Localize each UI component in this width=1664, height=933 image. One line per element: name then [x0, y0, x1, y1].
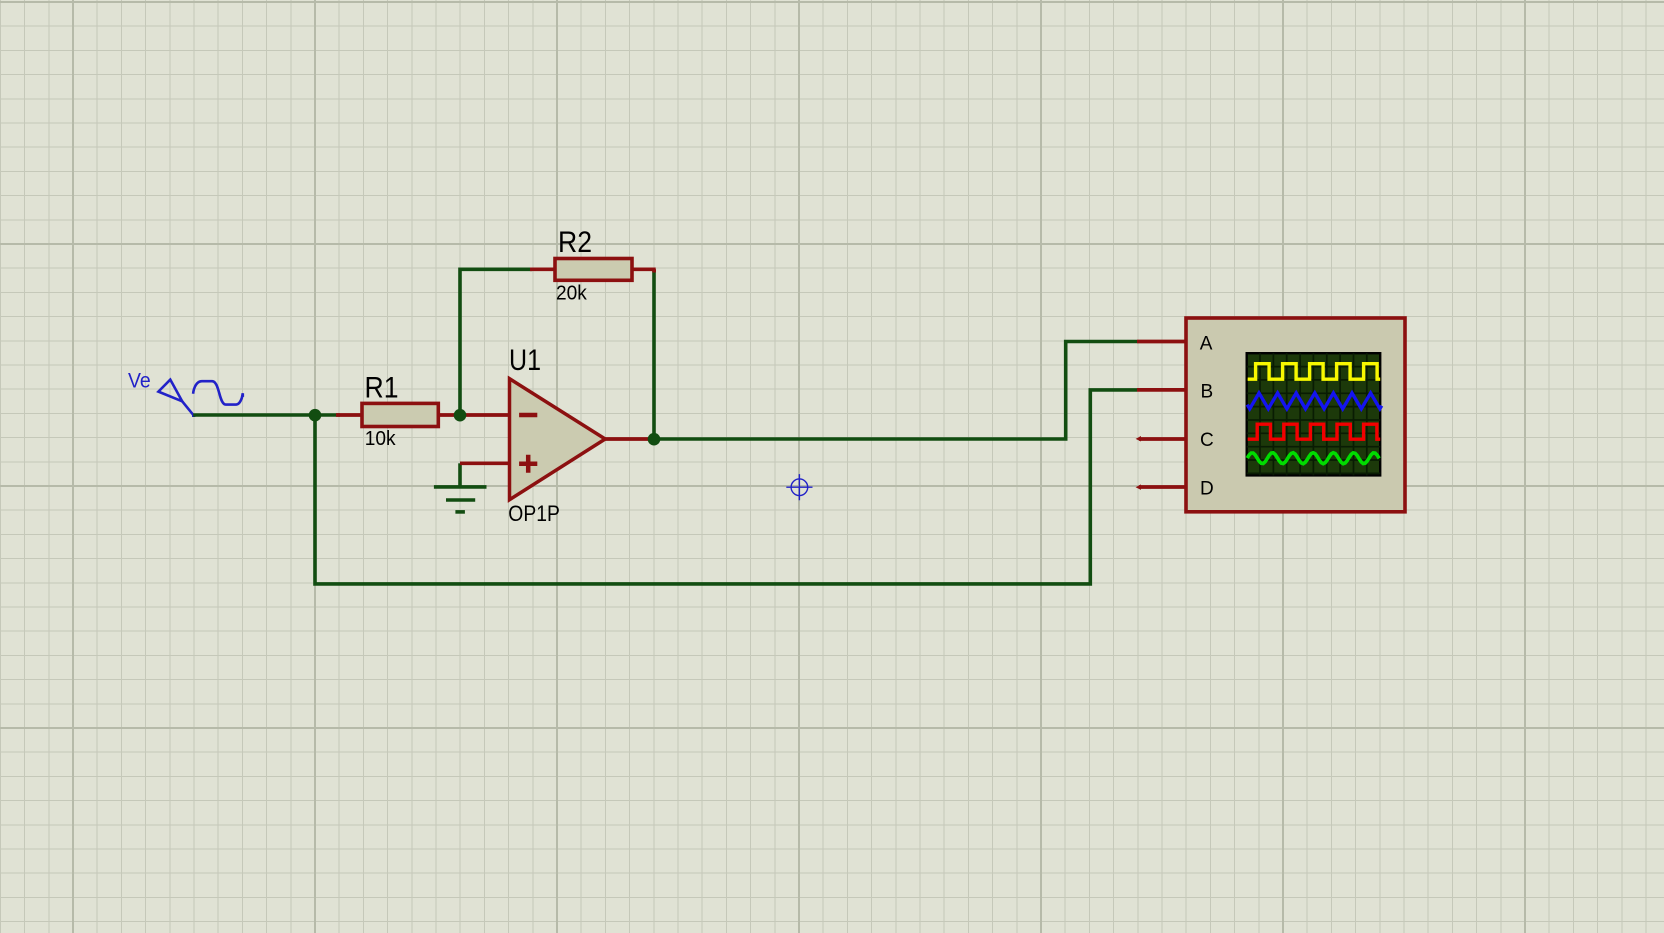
wire: feedback bottom run (node to scope B) — [315, 390, 1137, 584]
pin arrow D — [1136, 484, 1141, 490]
oscilloscope body — [1186, 318, 1405, 512]
ground — [434, 487, 487, 512]
resistor R2 — [555, 259, 632, 281]
wire: generator to input node — [193, 413, 315, 417]
wire: ground drop from non-inverting input — [458, 463, 462, 487]
svg-text:Ve: Ve — [128, 369, 151, 392]
op-amp minus mark — [519, 413, 537, 418]
generator Ve symbol — [158, 380, 242, 415]
node: output junction — [648, 433, 661, 446]
wire: R1 right to inverting input riser — [460, 269, 532, 415]
pin: R2 left — [530, 267, 555, 271]
node: input junction — [309, 409, 322, 422]
svg-text:20k: 20k — [556, 283, 588, 305]
generator pin dot — [192, 414, 195, 417]
trace B blue — [1247, 393, 1382, 409]
svg-text:A: A — [1200, 333, 1213, 354]
pin: scope A — [1137, 340, 1186, 344]
pin: scope B — [1137, 388, 1186, 392]
pin: op-amp inverting input — [460, 413, 509, 417]
resistor R1 — [362, 403, 438, 426]
svg-text:B: B — [1201, 382, 1214, 403]
svg-text:OP1P: OP1P — [508, 501, 560, 526]
scope screen grid — [1247, 353, 1381, 475]
trace D green — [1247, 453, 1379, 464]
trace C red — [1248, 424, 1381, 439]
pin: R2 right — [632, 267, 656, 271]
svg-text:R1: R1 — [365, 371, 399, 404]
wire: input node to R1 left pin — [315, 413, 340, 417]
pin: R1 left — [336, 413, 362, 417]
trace A yellow — [1248, 364, 1381, 380]
pin: op-amp non-inverting input — [460, 461, 509, 465]
svg-text:R2: R2 — [558, 226, 592, 259]
svg-text:D: D — [1200, 478, 1214, 499]
op-amp plus mark — [519, 455, 537, 473]
scope screen — [1247, 353, 1381, 475]
wire: R2 right down to output node — [652, 269, 656, 439]
svg-text:10k: 10k — [365, 428, 397, 450]
svg-text:U1: U1 — [509, 344, 541, 377]
node: R1/op-amp junction — [454, 409, 467, 422]
wire: output run to scope A — [654, 342, 1137, 440]
pin R2 corner nub — [652, 269, 656, 272]
pin: R1 right — [438, 413, 460, 417]
pin arrow C — [1136, 436, 1141, 442]
op-amp U1 — [510, 379, 606, 500]
pin: scope D — [1139, 485, 1186, 489]
pin: op-amp output — [605, 437, 655, 441]
cursor crosshair — [786, 474, 812, 500]
svg-text:C: C — [1200, 430, 1214, 451]
pin: scope C — [1139, 437, 1186, 441]
